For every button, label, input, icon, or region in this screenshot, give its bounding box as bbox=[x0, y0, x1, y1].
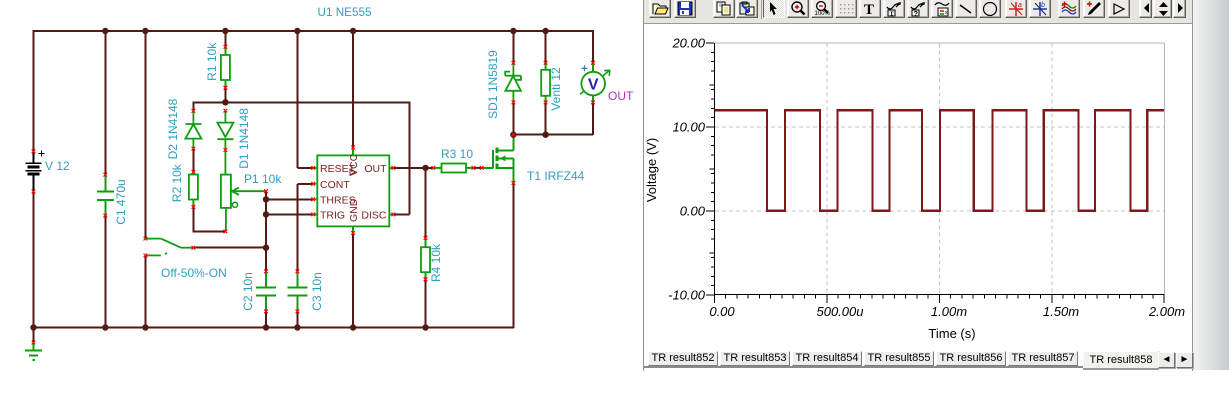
wire R4 branch bbox=[425, 168, 427, 238]
svg-text:T: T bbox=[890, 11, 895, 18]
op-amp U1 NE555 IC body bbox=[311, 146, 395, 235]
wire left rail lower bbox=[33, 192, 35, 329]
svg-text:OUT: OUT bbox=[364, 163, 387, 175]
potentiometer P1 bbox=[221, 175, 268, 234]
svg-text:100%: 100% bbox=[815, 11, 831, 17]
svg-text:10.00: 10.00 bbox=[672, 120, 705, 135]
waveform: TR result square wave bbox=[715, 110, 1165, 211]
axis number labels bbox=[668, 36, 1185, 320]
diode D1 1N4148 bbox=[217, 109, 233, 175]
wire THRES bbox=[266, 198, 313, 200]
svg-text:T: T bbox=[864, 2, 874, 17]
svg-text:R1 10k: R1 10k bbox=[205, 42, 219, 81]
svg-text:20.00: 20.00 bbox=[671, 36, 705, 51]
wire RESET riser bbox=[297, 30, 313, 168]
resistor R3 bbox=[432, 164, 484, 173]
pin connection x marks overlay bbox=[32, 45, 595, 344]
resistor R4 bbox=[421, 236, 430, 328]
toolbar buttons bbox=[649, 0, 671, 18]
voltmeter VM1 bbox=[580, 30, 610, 135]
dashed gridlines bbox=[715, 44, 1164, 295]
svg-text:-10.00: -10.00 bbox=[668, 288, 706, 303]
junction drain-SD1 bbox=[510, 132, 516, 138]
junction top rail switch column bbox=[142, 28, 148, 34]
resistor R1 bbox=[221, 30, 230, 103]
x ticks bbox=[715, 295, 1165, 303]
junction R1-D1-DISC bbox=[222, 99, 228, 105]
wire R2 bottom to P1 bottom bbox=[192, 207, 225, 232]
wire TRIG bbox=[266, 213, 313, 215]
junction OUT-R4 bbox=[422, 165, 428, 171]
diode D2 1N4148 bbox=[185, 109, 201, 150]
svg-text:V: V bbox=[588, 77, 599, 94]
battery V1 bbox=[25, 150, 44, 194]
junction bottom rail C1 bbox=[102, 324, 108, 330]
wire VCC drop bbox=[352, 30, 354, 147]
junction F-TRIG bbox=[263, 211, 269, 217]
svg-text:R2 10k: R2 10k bbox=[170, 163, 184, 202]
wiper arrow bbox=[232, 188, 266, 195]
svg-text:GND: GND bbox=[348, 198, 360, 222]
svg-text:?: ? bbox=[914, 9, 919, 17]
svg-text:DISC: DISC bbox=[361, 210, 387, 222]
ground bbox=[25, 328, 42, 361]
svg-text:D2 1N4148: D2 1N4148 bbox=[166, 98, 180, 159]
wire discharge net horizontal bbox=[193, 101, 409, 111]
junction drain-Venti bbox=[542, 132, 548, 138]
svg-text:CONT: CONT bbox=[320, 179, 350, 191]
svg-text:500.00u: 500.00u bbox=[817, 304, 864, 319]
wire top supply rail bbox=[33, 30, 595, 32]
capacitor C2 bbox=[256, 270, 276, 329]
junction GND-ground rail bbox=[350, 324, 356, 330]
svg-text:C3 10n: C3 10n bbox=[310, 272, 324, 311]
axes bbox=[714, 43, 1165, 303]
svg-text:C1 470u: C1 470u bbox=[114, 179, 128, 224]
junction bottom rail C3 bbox=[294, 324, 300, 330]
wire GND drop bbox=[352, 233, 354, 328]
junction bottom rail C2 bbox=[263, 324, 269, 330]
junction top rail R1 bbox=[222, 28, 228, 34]
svg-text:C2 10n: C2 10n bbox=[241, 272, 255, 311]
wire switch column lower bbox=[144, 255, 146, 328]
junction top rail SD1 bbox=[510, 28, 516, 34]
svg-text:2.00m: 2.00m bbox=[1148, 304, 1185, 319]
y ticks bbox=[706, 43, 714, 295]
svg-text:a: a bbox=[1018, 2, 1022, 9]
wire discharge riser to DISC bbox=[393, 101, 409, 214]
wire node F vertical bbox=[265, 190, 267, 271]
junction R4-ground rail bbox=[422, 324, 428, 330]
svg-text:SD1 1N5819: SD1 1N5819 bbox=[486, 50, 500, 119]
switch SW1 Off-50%-ON bbox=[144, 237, 196, 257]
svg-text:1.50m: 1.50m bbox=[1043, 304, 1079, 319]
svg-text:R4 10k: R4 10k bbox=[429, 243, 443, 282]
resistor R2 bbox=[189, 170, 198, 209]
svg-text:b: b bbox=[1041, 2, 1045, 9]
transistor T1 IRFZ44 bbox=[482, 134, 516, 328]
junction bottom rail switch bbox=[142, 324, 148, 330]
junction top rail Venti bbox=[542, 28, 548, 34]
svg-text:0.00: 0.00 bbox=[680, 204, 706, 219]
svg-text:Voltage (V): Voltage (V) bbox=[644, 138, 659, 202]
result tabs bbox=[648, 351, 718, 366]
wire bottom ground rail bbox=[33, 327, 515, 329]
junction top rail RESET bbox=[294, 28, 300, 34]
wire left rail upper bbox=[33, 30, 35, 152]
svg-text:TRIG: TRIG bbox=[320, 210, 345, 222]
svg-text:Venti 12: Venti 12 bbox=[549, 67, 563, 111]
wire drain node horizontal bbox=[512, 134, 593, 136]
wire CONT to C3 bbox=[297, 184, 313, 272]
junction bottom rail battery bbox=[30, 324, 36, 330]
capacitor C3 bbox=[287, 270, 307, 329]
junction top rail VCC bbox=[350, 28, 356, 34]
plot frame top/right bbox=[715, 43, 1165, 295]
junction F-switch bbox=[263, 245, 269, 251]
wire D2 to R2 bbox=[192, 149, 194, 172]
svg-text:OUT: OUT bbox=[608, 89, 634, 103]
junction F-THRES bbox=[263, 196, 269, 202]
wire switch column upper bbox=[144, 30, 146, 239]
capacitor C1 bbox=[97, 30, 114, 328]
wire switch to node F bbox=[195, 247, 266, 249]
svg-text:Off-50%-ON: Off-50%-ON bbox=[161, 266, 227, 280]
svg-text:1.00m: 1.00m bbox=[931, 304, 967, 319]
fan load Venti 12 bbox=[541, 30, 550, 135]
junction top rail C1 bbox=[102, 28, 108, 34]
svg-text:Time (s): Time (s) bbox=[928, 326, 975, 341]
svg-text:T1 IRFZ44: T1 IRFZ44 bbox=[527, 169, 585, 183]
svg-text:0.00: 0.00 bbox=[709, 304, 735, 319]
svg-text:V 12: V 12 bbox=[45, 159, 70, 173]
wire OUT net bbox=[393, 167, 434, 169]
svg-text:U1 NE555: U1 NE555 bbox=[318, 6, 372, 19]
diode SD1 1N5819 bbox=[505, 30, 521, 135]
svg-text:R3 10: R3 10 bbox=[441, 147, 473, 161]
svg-text:D1 1N4148: D1 1N4148 bbox=[237, 108, 251, 169]
plot area bbox=[644, 24, 1192, 350]
svg-text:P1 10k: P1 10k bbox=[244, 172, 282, 186]
